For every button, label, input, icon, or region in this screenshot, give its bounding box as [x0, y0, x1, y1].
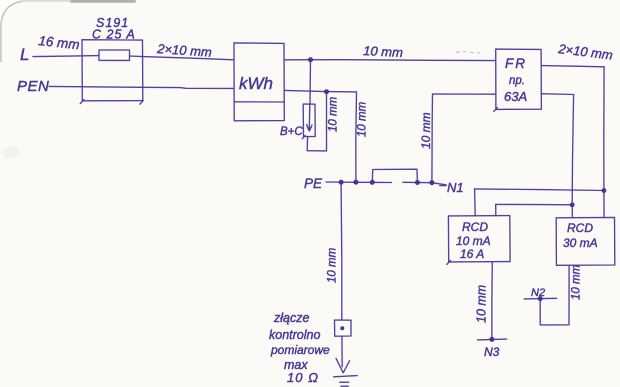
node L bus right	[570, 202, 575, 207]
corner tick fuse box bottom-left	[80, 100, 84, 104]
wire RCD 10mA to N3 10mm	[491, 262, 493, 340]
node N1 bus right	[602, 188, 607, 193]
wire PEN kWh to PE node	[284, 90, 356, 92]
PE bus line	[326, 181, 392, 184]
PE to N bridge link	[372, 169, 417, 182]
kWh meter terminal divider	[234, 101, 284, 103]
node PE bridge left	[370, 180, 375, 185]
svg-text:10 mm: 10 mm	[571, 264, 583, 300]
svg-text:PEN: PEN	[17, 78, 49, 95]
svg-text:10 mA: 10 mA	[456, 234, 491, 248]
svg-text:63A: 63A	[504, 89, 527, 104]
faint pencil scribble	[456, 52, 480, 53]
svg-text:30 mA: 30 mA	[563, 236, 598, 250]
earth electrode bar 2	[340, 381, 349, 383]
svg-text:PE: PE	[304, 176, 323, 191]
paper rounded corner top-left	[0, 0, 22, 26]
node N2	[538, 296, 543, 301]
wire RCD 30mA to N2 10mm	[540, 265, 569, 325]
svg-text:N1: N1	[447, 180, 464, 195]
svg-text:10 Ω: 10 Ω	[287, 370, 319, 385]
wire PEN service entry to kWh meter	[49, 86, 234, 88]
svg-text:np.: np.	[509, 75, 525, 87]
corner tick RCD 10mA bottom-left	[447, 261, 451, 265]
wire PEN down to PE bus 10mm	[355, 92, 358, 182]
wire FR output L 2x10mm	[541, 66, 604, 67]
kWh meter box	[234, 43, 284, 121]
L bus to RCD boxes	[496, 203, 573, 205]
fuse box S191 C25A	[82, 40, 143, 101]
wire FR output N	[541, 93, 573, 96]
surge arrester arrow	[308, 104, 311, 129]
svg-text:10 mm: 10 mm	[327, 247, 339, 283]
faint scan streak left edge	[1, 144, 21, 160]
scanner smudge top edge	[70, 0, 136, 3]
svg-text:10 mm: 10 mm	[363, 43, 404, 60]
node N3	[489, 337, 494, 342]
node PE earth tap	[339, 180, 344, 185]
svg-text:10 mm: 10 mm	[328, 96, 340, 132]
L bus drop to RCD 10mA	[495, 204, 497, 215]
svg-text:kWh: kWh	[239, 74, 273, 93]
svg-text:L: L	[20, 45, 29, 64]
earth electrode bar 1	[334, 376, 358, 377]
wire N1 to FR switch 10mm	[432, 94, 496, 183]
svg-text:10 mm: 10 mm	[475, 285, 489, 323]
node N to FR riser	[429, 180, 434, 185]
N3 terminal bar	[478, 338, 507, 341]
node test joint	[340, 326, 344, 330]
wire surge arrester to PEN	[307, 92, 326, 151]
node L to arrester tap	[308, 57, 313, 62]
wire N down to RCD row	[572, 95, 573, 218]
wire drop to surge arrester B+C	[309, 60, 312, 104]
svg-text:złącze: złącze	[273, 311, 309, 325]
wire L kWh to FR switch 10mm	[284, 59, 495, 62]
corner tick B+C box bottom-left	[302, 135, 305, 138]
test joint box	[335, 320, 352, 336]
corner tick fuse box bottom-right	[140, 101, 143, 105]
svg-text:N2: N2	[531, 287, 545, 299]
N bus segment after link	[403, 182, 446, 185]
wire L fuse to kWh meter	[130, 56, 235, 60]
svg-text:16 A: 16 A	[460, 247, 484, 261]
RCD 10mA 16A box	[448, 216, 510, 262]
wire L service entry	[33, 56, 99, 57]
corner tick FR box bottom-left	[494, 108, 498, 112]
svg-text:FR: FR	[505, 56, 527, 71]
node PE feed	[353, 180, 358, 185]
svg-text:C 25 A: C 25 A	[92, 28, 136, 42]
RCD 30mA box	[556, 217, 615, 265]
fuse element F1	[99, 50, 130, 60]
FR switch box	[496, 49, 542, 109]
svg-text:B+C: B+C	[280, 126, 303, 138]
earth arrow	[336, 358, 350, 373]
svg-text:kontrolno: kontrolno	[269, 328, 320, 342]
svg-text:10 mm: 10 mm	[419, 112, 433, 149]
svg-text:N3: N3	[484, 345, 500, 359]
earth electrode bar 3	[341, 385, 348, 387]
node N bridge right	[415, 180, 420, 185]
N1 bus to right	[474, 189, 604, 191]
wire joint to earth	[341, 336, 343, 367]
N2 terminal bar	[524, 297, 557, 300]
wire PE to earth electrode	[340, 182, 343, 320]
svg-text:RCD: RCD	[462, 220, 488, 234]
svg-text:10 mm: 10 mm	[357, 101, 369, 137]
wire L down right side	[603, 67, 605, 218]
svg-text:pomiarowe: pomiarowe	[270, 343, 330, 357]
svg-text:RCD: RCD	[567, 221, 593, 235]
N1 bus drop to RCD 10mA	[474, 189, 477, 216]
surge arrester B+C box	[303, 104, 315, 137]
N1 lead dash	[440, 185, 446, 187]
node PEN arrester return	[324, 89, 329, 94]
